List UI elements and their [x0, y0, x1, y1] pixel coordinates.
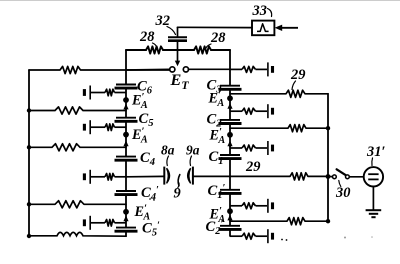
bias branch B2' (bottom) battery	[268, 229, 273, 243]
resistor row 3 (left)	[29, 144, 126, 151]
wire left column seg2	[125, 121, 127, 156]
stray dots near C4 prime	[149, 198, 151, 200]
meter box 33 (pulse indicator)	[252, 21, 274, 36]
wire from element 9a	[193, 175, 230, 177]
junction left bus row2	[27, 108, 31, 112]
capacitor C1'	[219, 190, 242, 194]
leader 32	[167, 27, 176, 35]
bias branch B5' battery	[84, 216, 90, 230]
wire top row left segment	[126, 49, 146, 51]
capacitor C5'	[115, 228, 138, 232]
node EA' (left 1)	[123, 97, 129, 103]
node EA' (left 3)	[123, 209, 129, 215]
resistor row C (right, to switch)	[230, 173, 328, 180]
resistor row 4 (left)	[29, 201, 126, 208]
bias branch B2' (bottom) wire/resistor	[230, 233, 267, 239]
element 9a (electrode)	[188, 167, 193, 185]
switch 30 right contact	[346, 175, 350, 179]
bias branch B2 wire/resistor	[230, 108, 267, 114]
element 8a (electrode)	[164, 167, 169, 185]
bias branch B1 wire/resistor	[230, 145, 267, 151]
wire left column seg1	[125, 88, 127, 117]
bias branch B1 battery	[268, 141, 273, 155]
bias branch B2 battery	[268, 104, 273, 118]
terminal ET left	[170, 67, 175, 72]
leader 8a	[167, 156, 169, 166]
leader 29 upper	[292, 81, 296, 90]
bias branch B1' battery	[268, 199, 273, 213]
arrow at EA' left1	[123, 104, 128, 110]
capacitor C2'	[219, 226, 242, 230]
leader 33	[268, 9, 272, 17]
switch 30 blade	[337, 169, 347, 175]
arrow into meter 33	[275, 25, 298, 31]
capacitor 32	[168, 37, 187, 41]
node EA' (left 2)	[123, 132, 129, 138]
svg-text:29: 29	[290, 67, 305, 83]
wire left column top	[125, 50, 127, 84]
resistor row 1 (left, to ET)	[29, 66, 170, 73]
bias branch B3 (top) battery	[268, 62, 273, 76]
svg-text:28: 28	[210, 30, 225, 46]
svg-text:33: 33	[252, 3, 267, 19]
resistor 29 (row A right)	[230, 90, 328, 97]
arrow at EA' left3	[123, 216, 128, 223]
capacitor C4'	[115, 191, 138, 195]
resistor row D (right)	[230, 218, 328, 225]
node EA' (right 3)	[227, 208, 233, 214]
arrow at EA' right3	[227, 215, 232, 221]
bias branch B6 wire/resistor	[91, 89, 126, 96]
svg-text:30: 30	[335, 185, 350, 201]
leader 31'	[371, 158, 374, 166]
terminal ET right	[183, 67, 188, 72]
node EA' (right 1)	[227, 95, 233, 101]
wire right column bottom	[229, 230, 231, 237]
leader 28 left	[153, 43, 157, 47]
scan artifact top edge	[0, 0, 400, 2]
bias branch B4 (center) wire/resistor	[91, 174, 126, 181]
bias branch B5' wire/resistor	[91, 220, 126, 227]
resistor 28 (left)	[146, 46, 163, 53]
wire left bus	[28, 70, 30, 236]
wire cap32 upper stub	[177, 27, 179, 36]
capacitor C2	[219, 120, 242, 124]
bias branch B5 battery	[84, 120, 90, 134]
wire top row right segment	[211, 49, 230, 51]
wire right column center	[229, 159, 231, 190]
leader 9a	[190, 156, 191, 166]
leader 9	[178, 183, 179, 188]
node EA' (right 2)	[227, 132, 233, 138]
junction left bus row5	[27, 234, 31, 238]
switch 30 left contact	[333, 175, 337, 179]
wire right column top	[229, 50, 231, 85]
stray dots bottom branch	[281, 239, 283, 241]
leader 30	[339, 181, 341, 187]
capacitor C3	[219, 86, 242, 90]
wire left column center	[125, 160, 127, 191]
resistor row 5 (left bottom)	[29, 232, 126, 236]
svg-text:31′: 31′	[366, 144, 385, 160]
resistor row B (right)	[230, 125, 328, 132]
ground	[366, 210, 382, 217]
wire bus to switch 30	[328, 176, 332, 178]
wire source to ground	[372, 187, 374, 210]
wire to meter 33	[178, 26, 253, 28]
svg-text:9: 9	[174, 186, 181, 202]
junction right bus rowC	[326, 174, 331, 179]
bias branch B5 wire/resistor	[91, 124, 126, 131]
wire switch to source 31'	[349, 176, 363, 178]
junction right bus rowD	[326, 219, 330, 223]
junction right bus rowB	[326, 126, 330, 130]
gap element 9	[178, 175, 180, 186]
arrow at EA' left2	[123, 141, 128, 148]
bias branch B6 battery	[84, 86, 90, 100]
resistor 28 (right)	[194, 46, 211, 53]
scan specks bottom right	[344, 237, 346, 239]
wire row1 to ET left terminal	[126, 68, 170, 71]
junction left bus row3	[27, 145, 31, 149]
resistor row 2 (left)	[29, 107, 126, 114]
wire right column seg2	[229, 124, 231, 155]
wire right bus	[327, 94, 329, 222]
arrow at EA' right2	[227, 141, 232, 148]
bias branch B1' wire/resistor	[230, 203, 267, 209]
capacitor C6	[115, 85, 138, 89]
wire top row middle	[163, 49, 194, 51]
wire right column seg4	[229, 194, 231, 226]
arrow to node ET	[175, 50, 180, 66]
source 31' (DC supply)	[364, 167, 383, 186]
arrow at EA' right1	[227, 103, 232, 110]
leader 28 right	[206, 44, 211, 48]
capacitor C4	[115, 157, 138, 161]
svg-text:8a: 8a	[161, 143, 175, 158]
wire to element 8a	[126, 175, 164, 177]
wire ET right terminal to right column	[189, 68, 231, 70]
capacitor C1	[219, 155, 242, 159]
wire cap32 lower stub	[177, 41, 179, 50]
svg-text:9a: 9a	[186, 143, 200, 158]
wire right column seg1	[229, 89, 231, 119]
bias branch B3 (top) wire/resistor	[230, 66, 267, 72]
bias branch B4 (center) battery	[84, 170, 90, 184]
junction left bus row4	[27, 202, 31, 206]
svg-text:29: 29	[245, 159, 260, 175]
wire left column seg4	[125, 195, 127, 228]
wire left column bottom	[125, 231, 127, 236]
capacitor C5	[115, 118, 138, 122]
